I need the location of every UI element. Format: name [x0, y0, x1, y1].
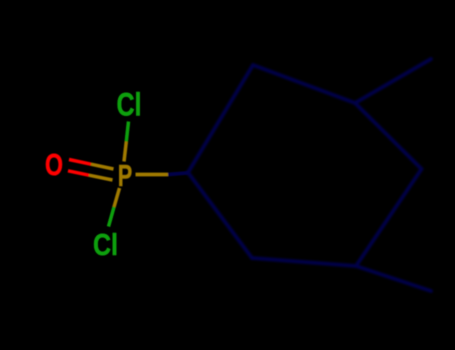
svg-text:P: P [118, 158, 133, 193]
ring: cyclohexane hexagon [188, 59, 431, 291]
wire ring edge Tm-R [355, 103, 422, 169]
bond P-Cl top: gold half [124, 142, 126, 162]
svg-text:Cl: Cl [93, 227, 118, 262]
double bond P=O upper: red half [69, 160, 91, 165]
wire ring edge BL-L [188, 173, 252, 259]
bond P-Cl top: green half [126, 122, 128, 142]
double bond P=O lower: gold half [89, 175, 113, 180]
svg-text:O: O [45, 147, 63, 182]
wire methyl bottom [356, 266, 431, 291]
svg-text:Cl: Cl [117, 87, 142, 123]
wire ring edge L-TL [188, 65, 253, 173]
bond P-Cl bottom: gold half [114, 188, 120, 207]
wire ring edge TL-Tm [253, 65, 355, 103]
wire ring edge Bm-BL [252, 258, 356, 266]
wire ring edge R-Bm [356, 169, 422, 266]
bond P-C(ring): carbon half [168, 173, 189, 175]
double bond P=O lower: red half [68, 171, 89, 175]
bond P-C(ring): gold half [136, 173, 169, 177]
double bond P=O upper: gold half [91, 164, 114, 169]
bond P-Cl bottom: green half [109, 207, 115, 227]
wire methyl top [355, 59, 431, 103]
